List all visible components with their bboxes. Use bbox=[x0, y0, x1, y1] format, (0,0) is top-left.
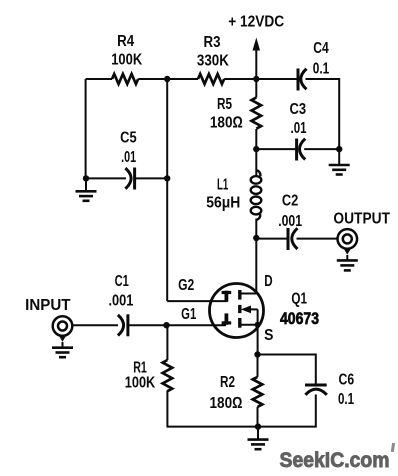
node dot R5/C3/L1 junction bbox=[253, 146, 259, 152]
wire C1 to G1 node bbox=[128, 324, 167, 326]
Q1 gate G2 electrode bbox=[224, 291, 228, 302]
connector OUTPUT jack bbox=[338, 229, 358, 249]
node dot +12V junction bbox=[253, 76, 259, 82]
resistor R5 bbox=[251, 98, 261, 129]
wire C5 right lead bbox=[135, 177, 168, 179]
wire C5 left lead bbox=[86, 177, 126, 179]
svg-text:R4: R4 bbox=[117, 33, 134, 50]
svg-text:180Ω: 180Ω bbox=[210, 395, 243, 412]
transistor Q1 body bbox=[210, 284, 264, 338]
Q1 gate G1 electrode bbox=[224, 313, 228, 324]
svg-text:R2: R2 bbox=[220, 374, 235, 391]
svg-text:180Ω: 180Ω bbox=[210, 115, 243, 132]
Q1 drain lead internal bbox=[240, 293, 256, 295]
ground left bbox=[76, 191, 97, 201]
wire left branch vertical bbox=[85, 79, 87, 178]
svg-text:L1: L1 bbox=[217, 177, 228, 194]
wire C4 to right corner bbox=[306, 79, 340, 149]
supply arrow +12VDC bbox=[255, 49, 257, 79]
wire R3 to +12V node bbox=[224, 78, 256, 80]
svg-text:C1: C1 bbox=[115, 273, 129, 290]
wire source down to S node bbox=[257, 325, 259, 355]
svg-text:C6: C6 bbox=[339, 372, 355, 389]
resistor R3 bbox=[198, 74, 224, 84]
wire +12V node to C4 bbox=[256, 78, 298, 80]
wire R1 bottom to rail corner bbox=[167, 391, 257, 427]
inductor L1 bbox=[251, 170, 262, 220]
svg-text:56μH: 56μH bbox=[206, 195, 240, 212]
wire node to R3 bbox=[167, 78, 198, 80]
Q1 substrate arrow bbox=[244, 308, 258, 310]
wire C3 left lead bbox=[256, 148, 296, 150]
capacitor C5 bbox=[125, 168, 131, 189]
node dot left ground junction bbox=[83, 175, 89, 181]
svg-text:C4: C4 bbox=[313, 40, 329, 57]
svg-text:INPUT: INPUT bbox=[25, 297, 71, 314]
wire input jack to C1 bbox=[72, 324, 118, 326]
svg-text:Q1: Q1 bbox=[291, 291, 307, 308]
connector INPUT jack bbox=[53, 316, 73, 336]
node dot substrate-source bbox=[255, 322, 261, 328]
svg-text:R3: R3 bbox=[204, 34, 221, 51]
svg-text:0.1: 0.1 bbox=[338, 391, 354, 408]
wire G2 lead bbox=[167, 300, 227, 302]
svg-text:.01: .01 bbox=[291, 120, 307, 137]
ground output stub bbox=[346, 255, 348, 260]
svg-text:D: D bbox=[264, 273, 272, 290]
wire drain from L1 node down bbox=[255, 238, 257, 294]
ground output bbox=[337, 260, 358, 270]
watermark tick mark bbox=[391, 443, 395, 452]
node dot G1 junction bbox=[163, 322, 169, 328]
svg-text:40673: 40673 bbox=[280, 310, 319, 328]
capacitor C3 bbox=[295, 139, 298, 161]
svg-text:330K: 330K bbox=[197, 53, 229, 70]
svg-text:C5: C5 bbox=[120, 130, 137, 147]
svg-text:100K: 100K bbox=[125, 374, 156, 391]
wire R4 to node G2rail bbox=[138, 78, 167, 80]
svg-text:OUTPUT: OUTPUT bbox=[333, 210, 390, 227]
wire top rail left segment bbox=[86, 78, 112, 80]
capacitor C4 bbox=[297, 69, 300, 91]
ground input bbox=[52, 348, 73, 358]
node dot S junction bbox=[254, 351, 260, 357]
ground right top bbox=[329, 165, 350, 175]
svg-text:.01: .01 bbox=[121, 149, 136, 166]
resistor R2 bbox=[253, 377, 263, 407]
node dot bottom rail junction bbox=[255, 423, 261, 429]
ground bottom stub bbox=[257, 427, 259, 440]
ground right top stub bbox=[338, 149, 340, 164]
svg-text:R5: R5 bbox=[217, 96, 232, 113]
wire C2 to output jack bbox=[297, 238, 338, 240]
wire G1 lead bbox=[167, 324, 227, 326]
capacitor C1 bbox=[118, 315, 124, 336]
svg-text:S: S bbox=[264, 327, 274, 344]
wire R2 bottom lead bbox=[257, 407, 259, 427]
wire L1 top lead bbox=[255, 149, 257, 176]
svg-text:+ 12VDC: + 12VDC bbox=[228, 14, 284, 31]
node dot C5/G2 rail junction bbox=[164, 175, 170, 181]
ground bottom bbox=[248, 440, 269, 450]
wire R2 top lead bbox=[257, 355, 259, 377]
svg-text:.001: .001 bbox=[278, 213, 302, 230]
svg-text:G2: G2 bbox=[178, 277, 194, 294]
wire G2 rail vertical bbox=[166, 79, 168, 301]
wire R5 bottom lead bbox=[255, 129, 257, 149]
resistor R1 bbox=[163, 360, 173, 391]
Q1 source lead internal bbox=[240, 324, 258, 326]
svg-text:G1: G1 bbox=[181, 306, 196, 323]
wire C6 bottom to rail bbox=[258, 395, 316, 427]
node dot R4/R3 junction bbox=[164, 76, 170, 82]
wire S node to C6 bbox=[258, 355, 316, 384]
wire C2 left lead bbox=[256, 238, 288, 240]
resistor R4 bbox=[112, 74, 138, 84]
svg-text:100K: 100K bbox=[111, 52, 142, 69]
svg-text:0.1: 0.1 bbox=[313, 60, 330, 77]
node dot L1/C2/drain junction bbox=[253, 235, 259, 241]
Q1 channel bbox=[238, 290, 241, 328]
svg-text:SeekIC.com: SeekIC.com bbox=[280, 448, 390, 472]
svg-text:C3: C3 bbox=[290, 101, 307, 118]
capacitor C6 bbox=[305, 384, 327, 387]
wire R5 top lead bbox=[255, 79, 257, 98]
ground left stub bbox=[85, 178, 87, 190]
svg-text:C2: C2 bbox=[282, 193, 298, 210]
wire R1 top lead bbox=[166, 325, 168, 360]
capacitor C2 bbox=[287, 228, 290, 250]
wire C3 to right node bbox=[304, 148, 339, 150]
node dot C3/C4 ground junction bbox=[336, 146, 342, 152]
svg-text:.001: .001 bbox=[108, 292, 133, 309]
wire L1 bottom lead bbox=[255, 219, 257, 239]
ground input stub bbox=[62, 342, 64, 348]
